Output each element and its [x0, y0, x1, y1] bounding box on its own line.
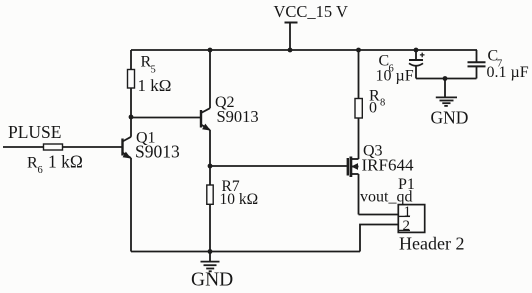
wire bottom rail up to header pin 2: [360, 225, 398, 252]
svg-text:vout_qd: vout_qd: [360, 189, 412, 206]
wire rail to R5: [130, 50, 132, 70]
capacitor C7: [468, 48, 529, 82]
transistor Q2: [201, 94, 259, 131]
resistor R7: [207, 178, 258, 208]
wire Q2 emitter down: [209, 130, 211, 166]
wire R7 to bottom rail: [209, 204, 211, 251]
wire bottom rail: [131, 251, 360, 253]
power VCC_15 V: [274, 2, 349, 52]
node C6 C7 gnd junction: [443, 76, 448, 81]
node A junction: [129, 115, 134, 120]
svg-text:Header 2: Header 2: [399, 234, 464, 254]
svg-text:0.1 µF: 0.1 µF: [487, 64, 529, 81]
node bottom junction: [208, 249, 213, 254]
wire node B to R7: [209, 166, 211, 185]
capacitor C6: [376, 48, 425, 85]
svg-text:10 µF: 10 µF: [376, 68, 414, 85]
wire C6 to C7 bottom: [416, 78, 477, 80]
wire top power rail: [131, 49, 477, 51]
svg-text:1 kΩ: 1 kΩ: [48, 152, 83, 172]
node R8 rail junction: [356, 48, 361, 53]
connector P1 header box: [398, 176, 464, 254]
svg-text:10 kΩ: 10 kΩ: [220, 191, 259, 208]
wire Q1 emitter down: [130, 158, 132, 252]
resistor R5: [128, 54, 172, 96]
svg-text:8: 8: [380, 98, 385, 109]
svg-text:S9013: S9013: [217, 107, 259, 126]
svg-text:6: 6: [38, 165, 43, 176]
wire Q2 collector to rail: [209, 50, 211, 108]
wire node A to Q2 base: [131, 117, 201, 119]
svg-text:5: 5: [151, 65, 156, 76]
transistor Q3 mosfet: [348, 143, 414, 178]
wire node B to Q3 gate: [210, 165, 348, 167]
svg-text:GND: GND: [431, 108, 469, 128]
wire R5 to node A: [130, 88, 132, 137]
wire Q3 source down: [358, 174, 360, 215]
ground right: [431, 79, 469, 128]
svg-text:2: 2: [403, 218, 411, 234]
svg-text:0: 0: [369, 100, 377, 117]
node Q2 collector rail junction: [208, 48, 213, 53]
svg-text:1 kΩ: 1 kΩ: [138, 76, 172, 95]
wire input left: [3, 146, 44, 148]
wire Q3 drain up: [358, 118, 360, 159]
svg-text:S9013: S9013: [135, 142, 180, 162]
svg-text:PLUSE: PLUSE: [8, 122, 61, 142]
transistor Q1: [123, 130, 180, 162]
svg-text:IRF644: IRF644: [362, 156, 414, 175]
wire R8 to rail: [358, 50, 360, 99]
resistor R6: [27, 144, 83, 176]
resistor R8: [355, 88, 385, 119]
svg-text:GND: GND: [191, 270, 233, 291]
svg-text:VCC_15 V: VCC_15 V: [274, 2, 349, 21]
wire source to header pin 1: [359, 214, 399, 216]
ground bottom: [191, 252, 233, 291]
node B junction: [208, 164, 213, 169]
wire R6 to Q1 base: [63, 146, 123, 148]
svg-text:R: R: [27, 155, 38, 172]
